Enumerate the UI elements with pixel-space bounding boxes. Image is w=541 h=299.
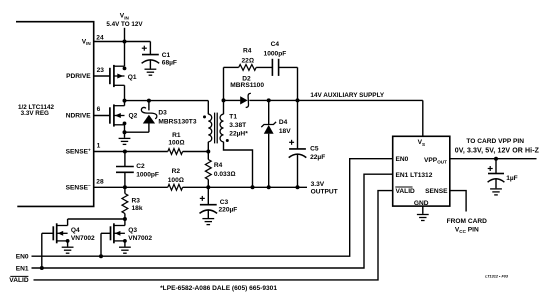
phase dot T1 primary [203, 115, 206, 118]
ground below C1 [145, 69, 157, 75]
dot Q3 source-body tie [123, 239, 127, 243]
svg-text:1: 1 [97, 143, 101, 150]
svg-text:VN7002: VN7002 [71, 235, 95, 242]
svg-text:D3: D3 [158, 110, 167, 117]
svg-text:24: 24 [96, 34, 104, 41]
wire bus down to Q3 drain arm [124, 219, 126, 226]
svg-text:220µF: 220µF [219, 207, 238, 214]
wire D2 cathode / 14V auxiliary supply rail [249, 99, 422, 101]
junction T1 primary / R4 sense top [206, 150, 210, 154]
svg-text:R4: R4 [243, 48, 252, 55]
svg-text:VALID: VALID [9, 277, 29, 284]
phase dot T1 secondary [226, 139, 229, 142]
svg-text:14V AUXILIARY SUPPLY: 14V AUXILIARY SUPPLY [310, 92, 384, 99]
svg-text:VN7002: VN7002 [128, 235, 152, 242]
junction D4 anode [267, 185, 271, 189]
svg-text:C4: C4 [271, 41, 280, 48]
svg-text:SENSE+: SENSE+ [66, 147, 91, 155]
svg-text:R1: R1 [172, 132, 181, 139]
wire Q1 drain to switch node and Q2 drain [124, 85, 126, 105]
wire T1 secondary bottom to 3.3V output rail [224, 142, 253, 188]
svg-text:100Ω: 100Ω [168, 139, 184, 146]
plus sign 1uF [488, 166, 493, 171]
transistor Q2 N-channel MOSFET [110, 104, 125, 126]
ground below C3 [202, 219, 214, 225]
transformer T1 core [214, 113, 216, 144]
wire EN0 rail to LT1312 EN0 pin [32, 159, 393, 257]
wire VIN node to Q1 source [124, 42, 126, 67]
junction C5 bottom [296, 185, 300, 189]
svg-text:TO CARD VPP PIN: TO CARD VPP PIN [466, 138, 524, 145]
wire Q3 gate lead [101, 232, 111, 234]
svg-text:1000pF: 1000pF [136, 172, 159, 179]
junction T1 secondary return [251, 185, 255, 189]
wire C3 to ground [207, 210, 209, 218]
svg-text:MBRS130T3: MBRS130T3 [158, 119, 196, 126]
wire SENSE- pin 28 to R2 [94, 186, 168, 188]
plus sign C1 [142, 46, 147, 51]
wire Q3 source to ground [124, 241, 126, 247]
wire SENSE pin to card VCC pin [450, 191, 466, 212]
svg-text:22Ω: 22Ω [241, 57, 253, 64]
junction Q2 source / D3 anode [123, 130, 127, 134]
svg-text:NDRIVE: NDRIVE [66, 112, 92, 119]
wire C1 to ground [149, 60, 151, 69]
resistor R1 zigzag [168, 149, 183, 155]
ground below Q2 [119, 138, 131, 144]
wire Q2 source to D3 anode [125, 131, 149, 133]
transistor Q4 VN7002 N-channel [53, 223, 67, 243]
svg-text:D4: D4 [279, 119, 288, 126]
svg-text:EN1: EN1 [16, 265, 29, 272]
svg-text:Q4: Q4 [71, 227, 80, 234]
svg-text:22µH*: 22µH* [229, 131, 248, 138]
dot Q4 source-body tie [66, 239, 70, 243]
svg-text:C3: C3 [220, 199, 229, 206]
resistor R4 snubber zigzag [239, 65, 257, 71]
diode D2 MBRS1100 schottky [240, 96, 247, 104]
svg-text:R2: R2 [172, 168, 181, 175]
wire VPPOUT to 1uF [495, 159, 497, 174]
wire R2 to 3.3V output rail [183, 186, 307, 188]
svg-text:R3: R3 [132, 197, 141, 204]
capacitor C1 68uF plates [142, 55, 160, 64]
junction SENSE+ / C2 [123, 150, 127, 154]
svg-text:C1: C1 [162, 52, 171, 59]
svg-text:3.3V REG: 3.3V REG [21, 110, 49, 117]
svg-text:Q3: Q3 [128, 227, 137, 234]
svg-text:C5: C5 [310, 146, 319, 153]
svg-text:1µF: 1µF [506, 175, 518, 182]
wire Q4 drain to Q3 drain bus [68, 218, 125, 220]
junction C5 / snubber / 14V rail [296, 98, 300, 102]
svg-text:T1: T1 [229, 114, 237, 121]
svg-text:*LPE-6582-A086 DALE (605) 665-: *LPE-6582-A086 DALE (605) 665-9301 [160, 285, 277, 292]
op IC U1 1/2 LTC1142 block outline [16, 22, 94, 207]
junction T1 secondary top / D2 anode [222, 98, 226, 102]
wire T1 primary bottom to sense line [207, 142, 209, 152]
wire VIN label to VIN node [124, 28, 126, 42]
svg-text:VALID: VALID [396, 188, 416, 195]
ground below 1uF [490, 189, 502, 195]
wire VPPOUT to card VPP pin [450, 158, 537, 160]
svg-text:R4: R4 [214, 162, 223, 169]
resistor R4 sense zigzag [205, 160, 211, 180]
wire T1 secondary top to D2 anode node [223, 100, 225, 114]
svg-text:Q2: Q2 [129, 113, 138, 120]
svg-text:100Ω: 100Ω [168, 177, 184, 184]
svg-text:VCC PIN: VCC PIN [455, 227, 479, 235]
wire Q4 gate to EN1 rail [41, 233, 43, 268]
svg-text:EN0: EN0 [396, 156, 409, 163]
capacitor C4 1000pF snubber [271, 59, 273, 76]
svg-text:18V: 18V [279, 128, 291, 135]
svg-text:22µF: 22µF [310, 154, 325, 161]
svg-text:0V, 3.3V, 5V, 12V OR Hi-Z: 0V, 3.3V, 5V, 12V OR Hi-Z [455, 147, 540, 154]
plus sign C5 [289, 140, 294, 145]
wire SENSE- to R3 [124, 187, 126, 193]
dot Q2 source-body tie [123, 122, 127, 126]
svg-text:SENSE: SENSE [425, 188, 448, 195]
wire to sense resistor [207, 152, 209, 160]
svg-text:SENSE−: SENSE− [66, 183, 91, 191]
wire Q4 source to ground [67, 241, 69, 247]
svg-text:Q1: Q1 [128, 74, 137, 81]
svg-text:LT1312 • F03: LT1312 • F03 [485, 275, 509, 279]
junction D3 cathode tap [147, 99, 151, 103]
svg-text:1000pF: 1000pF [264, 51, 287, 58]
svg-text:68µF: 68µF [162, 59, 177, 66]
wire 14V rail to C5 [297, 100, 299, 148]
junction R4 sense bottom / C3 [206, 185, 210, 189]
wire to T1 primary top [207, 101, 209, 115]
resistor R3 zigzag [122, 194, 128, 214]
junction Q4 gate / EN1 [40, 266, 44, 270]
wire PDRIVE pin 23 to Q1 gate [94, 75, 110, 77]
capacitor C5 plates [289, 149, 307, 158]
svg-text:EN1 LT1312: EN1 LT1312 [396, 172, 433, 179]
junction SENSE- / C2 / R3 [123, 185, 127, 189]
wire 14V rail to LT1312 VS pin [422, 100, 424, 136]
svg-text:3.3V: 3.3V [311, 181, 325, 188]
transistor Q1 P-channel MOSFET [110, 65, 125, 87]
wire snubber right leg down [297, 67, 299, 100]
transformer T1 secondary winding [220, 114, 223, 142]
wire sense resistor to output rail [207, 180, 209, 188]
wire 14V rail to D4 cathode [268, 100, 270, 124]
wire to snubber R4 [224, 66, 239, 68]
wire snubber R4 to C4 [256, 66, 272, 68]
wire C2 bottom plate to SENSE- [124, 172, 126, 187]
op IC U2 LT1312 block outline [393, 136, 450, 206]
ground below Q4 [62, 247, 74, 253]
wire switch node to T1 primary [125, 100, 209, 102]
wire output rail to C3 [207, 187, 209, 204]
wire D3 anode down [148, 123, 150, 132]
svg-text:OUTPUT: OUTPUT [311, 189, 338, 196]
wire snubber left leg [223, 67, 225, 100]
capacitor C3 plates [200, 205, 218, 214]
wire down to C1 [149, 42, 151, 55]
junction 1uF tap [494, 157, 498, 161]
junction switch node [123, 99, 127, 103]
wire Q4 gate lead [42, 232, 54, 234]
wire LT1312 GND pin to ground [422, 206, 424, 214]
wire R1 to sense resistor top [183, 151, 209, 153]
wire SENSE+ to C2 top plate [124, 152, 126, 167]
wire VALID rail to LT1312 VALID pin [34, 191, 393, 280]
wire Q2 source down [124, 125, 126, 132]
svg-text:PDRIVE: PDRIVE [66, 73, 91, 80]
junction D4 cathode [267, 98, 271, 102]
svg-text:0.033Ω: 0.033Ω [214, 171, 236, 178]
svg-text:23: 23 [97, 67, 105, 74]
transistor Q3 VN7002 N-channel [111, 223, 125, 243]
svg-text:C2: C2 [136, 163, 145, 170]
capacitor 1uF plates [488, 174, 505, 183]
wire SENSE+ pin 1 to R1 [94, 151, 168, 153]
wire EN1 rail to LT1312 EN1 pin [32, 174, 393, 268]
wire NDRIVE pin 6 to Q2 gate [94, 115, 110, 117]
svg-text:28: 28 [96, 178, 104, 185]
junction R3 bottom / Q3 drain [123, 217, 127, 221]
ground below Q3 [119, 247, 131, 253]
wire to D2 anode [224, 99, 241, 101]
svg-text:GND: GND [414, 200, 429, 207]
svg-text:5.4V TO 12V: 5.4V TO 12V [106, 21, 143, 28]
resistor R2 zigzag [168, 184, 183, 190]
wire D4 anode to output rail [268, 134, 270, 188]
ground below LT1312 [417, 215, 429, 221]
wire C4 to snubber right leg [279, 66, 298, 68]
wire to ground below Q2 [124, 132, 126, 138]
wire node to D3 cathode [148, 101, 150, 111]
svg-text:18k: 18k [132, 205, 143, 212]
junction Q3 gate / EN0 [99, 254, 103, 258]
wire bus down to Q4 drain arm [67, 219, 69, 226]
dot Q1 source-body tie [123, 67, 127, 71]
svg-text:6: 6 [97, 106, 101, 113]
wire C5 to output rail [297, 154, 299, 187]
svg-text:3.38T: 3.38T [229, 122, 246, 129]
wire Q3 gate to EN0 rail [100, 233, 102, 256]
wire VIN pin 24 to C1 [94, 41, 151, 43]
svg-text:MBRS1100: MBRS1100 [230, 82, 264, 89]
svg-text:FROM CARD: FROM CARD [447, 218, 488, 225]
wire R3 to Q3/Q4 drains [124, 214, 126, 220]
junction VIN node [123, 40, 127, 44]
svg-text:EN0: EN0 [16, 254, 29, 261]
wire 1uF to ground [495, 179, 497, 189]
plus sign C3 [200, 196, 205, 201]
